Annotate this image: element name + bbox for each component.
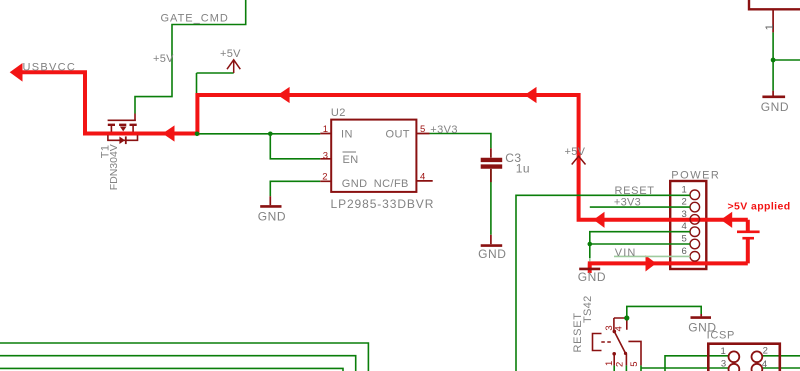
svg-text:NC/FB: NC/FB xyxy=(374,178,409,190)
svg-text:POWER: POWER xyxy=(671,169,720,181)
svg-text:1: 1 xyxy=(764,24,776,30)
svg-text:ICSP: ICSP xyxy=(707,330,735,342)
svg-text:2: 2 xyxy=(615,362,626,367)
svg-text:USBVCC: USBVCC xyxy=(23,62,77,74)
svg-text:1: 1 xyxy=(604,361,615,366)
svg-text:FDN304V: FDN304V xyxy=(108,144,120,190)
svg-text:VIN: VIN xyxy=(615,247,637,259)
svg-text:+3V3: +3V3 xyxy=(430,124,458,136)
svg-text:4: 4 xyxy=(682,221,687,232)
svg-text:2: 2 xyxy=(763,346,768,357)
svg-text:1: 1 xyxy=(323,124,328,135)
svg-text:4: 4 xyxy=(420,172,425,183)
svg-text:1: 1 xyxy=(721,346,726,357)
svg-text:GATE_CMD: GATE_CMD xyxy=(161,13,229,25)
svg-text:GND: GND xyxy=(342,178,368,190)
svg-text:6: 6 xyxy=(682,246,687,257)
svg-text:4: 4 xyxy=(614,326,625,331)
svg-text:2: 2 xyxy=(322,172,327,183)
svg-text:1: 1 xyxy=(682,184,687,195)
svg-text:+5V: +5V xyxy=(153,53,174,65)
svg-text:5: 5 xyxy=(629,362,640,367)
svg-text:IN: IN xyxy=(341,128,353,140)
svg-text:+3V3: +3V3 xyxy=(614,197,641,209)
svg-text:1u: 1u xyxy=(516,162,530,176)
svg-text:U2: U2 xyxy=(331,107,346,119)
svg-text:EN: EN xyxy=(343,154,359,166)
svg-text:2: 2 xyxy=(682,197,687,208)
svg-text:3: 3 xyxy=(323,150,328,161)
svg-text:5: 5 xyxy=(682,234,687,245)
svg-text:5: 5 xyxy=(420,124,425,135)
svg-text:GND: GND xyxy=(258,210,286,224)
svg-text:RESET: RESET xyxy=(615,185,655,197)
svg-text:+5V: +5V xyxy=(565,146,586,158)
svg-text:GND: GND xyxy=(761,100,789,114)
svg-text:4: 4 xyxy=(762,359,767,370)
svg-text:OUT: OUT xyxy=(386,128,410,140)
svg-text:3: 3 xyxy=(682,209,687,220)
svg-text:TS42: TS42 xyxy=(582,296,594,324)
svg-text:>5V applied: >5V applied xyxy=(728,201,791,213)
svg-text:LP2985-33DBVR: LP2985-33DBVR xyxy=(331,197,435,211)
svg-text:GND: GND xyxy=(478,247,506,261)
svg-text:+5V: +5V xyxy=(220,48,241,60)
svg-text:3: 3 xyxy=(721,358,726,369)
svg-text:GND: GND xyxy=(578,270,606,284)
